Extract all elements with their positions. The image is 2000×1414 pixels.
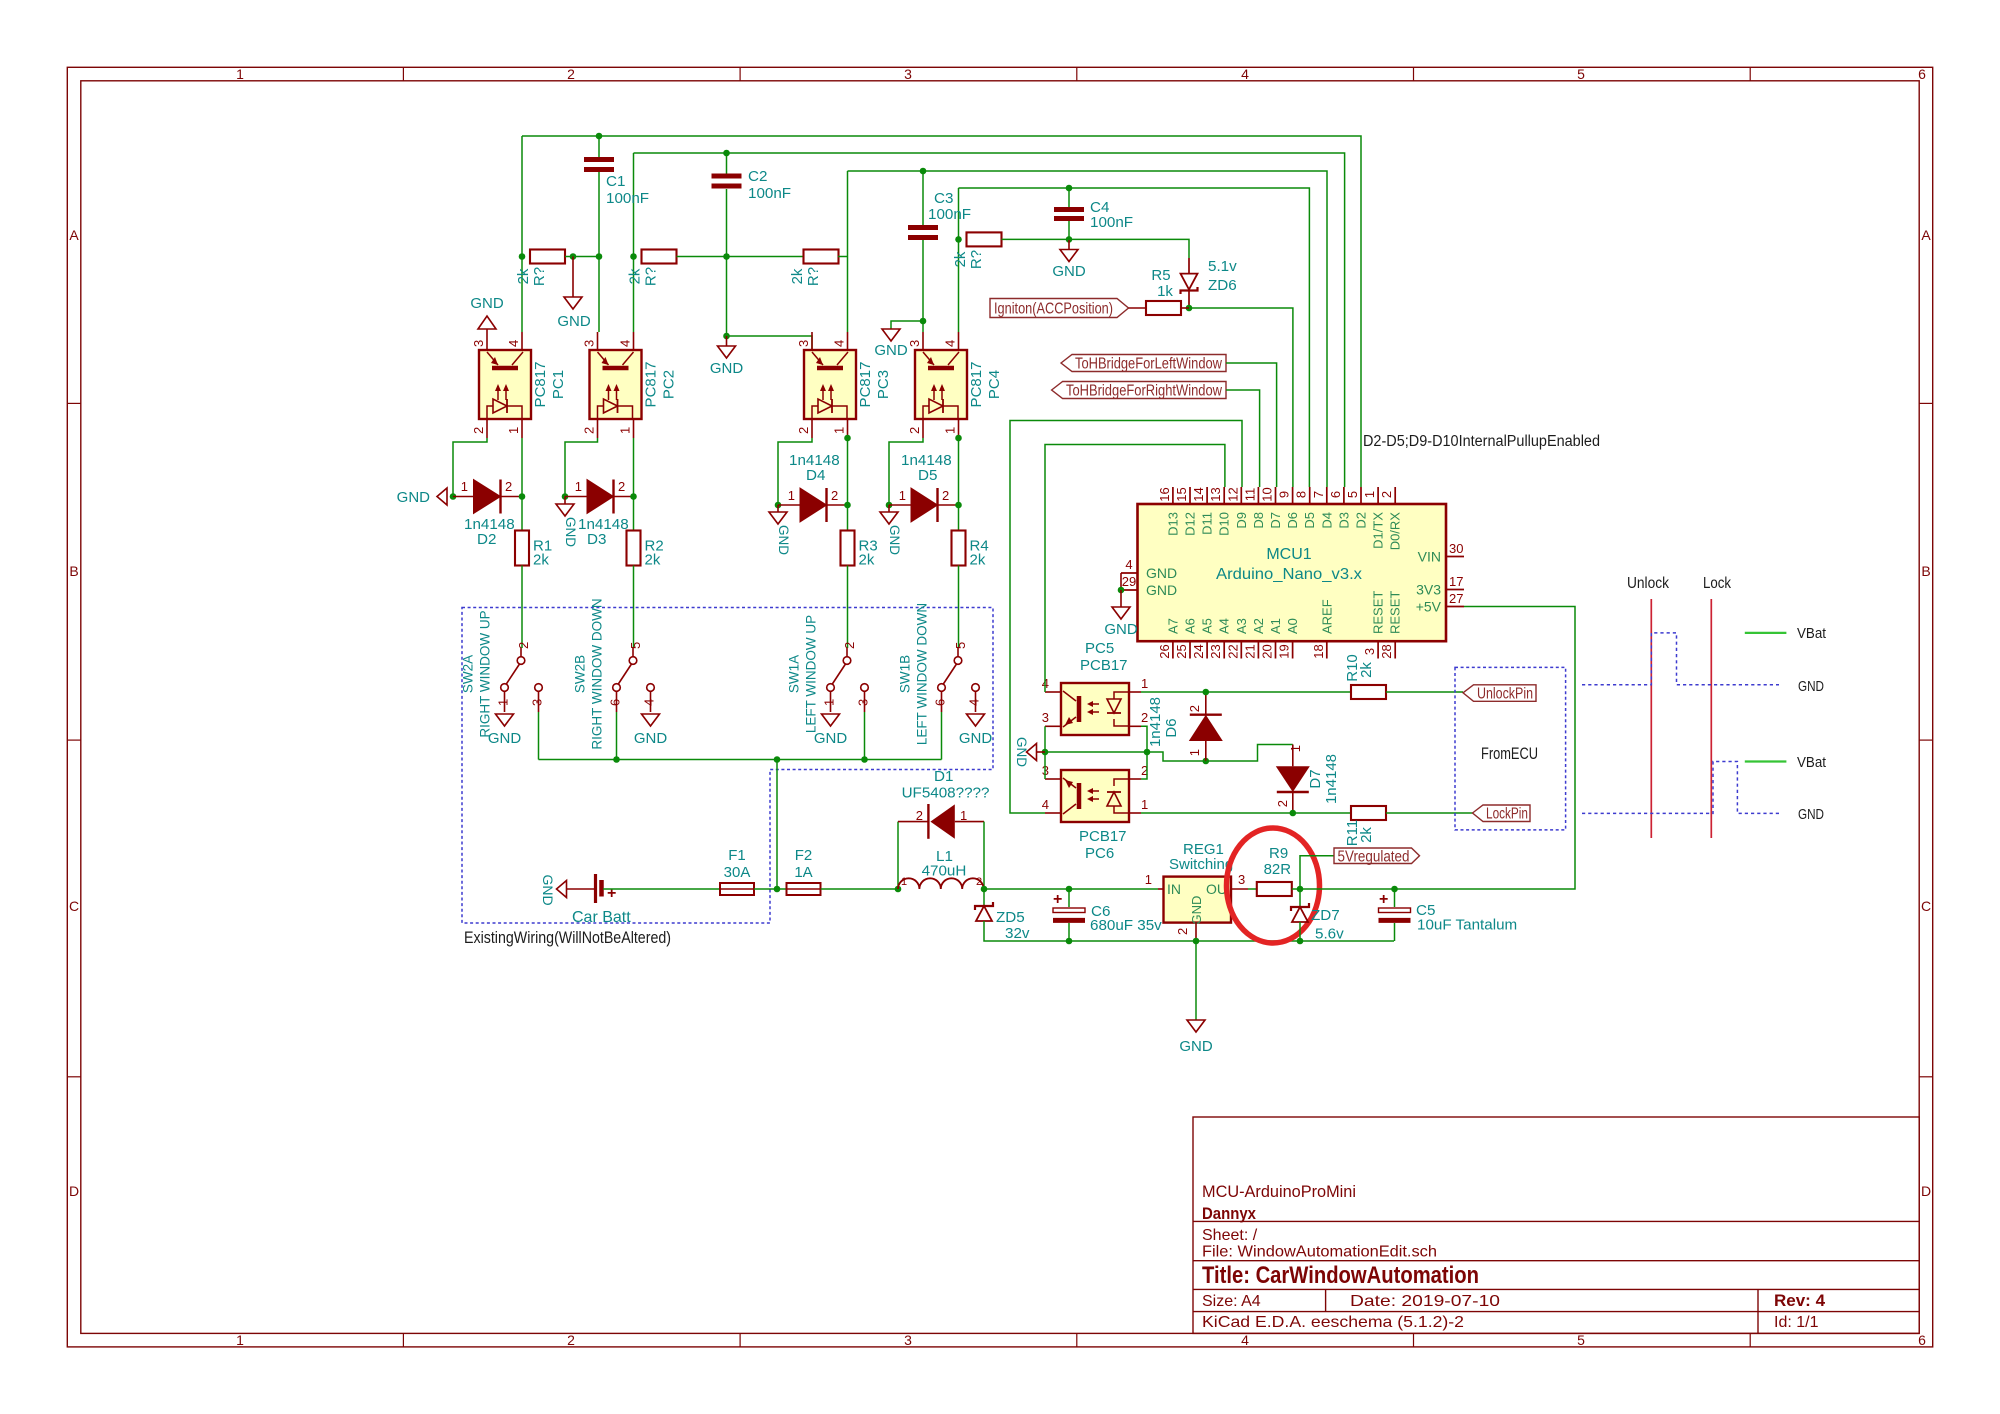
wire gnd stem R?1 <box>572 257 574 298</box>
junction D3 anode gnd <box>562 493 569 500</box>
svg-text:2k: 2k <box>1358 827 1375 843</box>
svg-text:GND: GND <box>959 730 993 747</box>
svg-text:IN: IN <box>1167 881 1181 897</box>
diode D3 1n4148 <box>587 480 614 514</box>
wire gnd stem D5 <box>888 505 890 512</box>
svg-text:PCB17: PCB17 <box>1079 828 1127 845</box>
wire PC6 pin1 to R11 <box>1141 812 1351 814</box>
pin 3 stub PC1 <box>486 332 488 350</box>
power gnd below D5 <box>880 512 898 524</box>
wire gnd node to pin2s <box>1045 751 1147 753</box>
svg-text:VBat: VBat <box>1797 625 1827 642</box>
svg-text:2k: 2k <box>952 251 969 267</box>
svg-text:100nF: 100nF <box>928 206 971 223</box>
wire D6 anode to D7 <box>1206 745 1293 762</box>
wire R11 to LockPin <box>1386 812 1473 814</box>
wire RightWindow to pin11 <box>1226 390 1260 487</box>
wire 5V riser to label <box>1300 856 1334 889</box>
svg-text:ToHBridgeForLeftWindow: ToHBridgeForLeftWindow <box>1075 356 1223 373</box>
svg-text:11: 11 <box>1242 488 1257 502</box>
svg-text:4: 4 <box>832 340 847 347</box>
capacitor C4 <box>1054 207 1084 212</box>
svg-text:GND: GND <box>710 360 744 377</box>
junction D4 cathode <box>844 502 851 509</box>
svg-text:MCU-ArduinoProMini: MCU-ArduinoProMini <box>1202 1182 1356 1201</box>
svg-text:15: 15 <box>1174 487 1189 501</box>
svg-text:R?: R? <box>968 250 985 269</box>
diode D6 cathode lead <box>1205 692 1207 715</box>
svg-text:5: 5 <box>628 642 643 649</box>
svg-text:2k: 2k <box>645 552 661 569</box>
pin 25 stub bottom <box>1189 641 1191 658</box>
svg-text:3: 3 <box>471 340 486 347</box>
junction R9 out node <box>1297 886 1304 893</box>
svg-text:PC817: PC817 <box>532 362 549 408</box>
wire R10 to UnlockPin <box>1386 691 1463 693</box>
wire ZD5 top <box>983 889 985 905</box>
svg-text:1: 1 <box>1145 872 1152 887</box>
svg-text:3: 3 <box>1362 648 1377 655</box>
svg-text:Size: A4: Size: A4 <box>1202 1293 1261 1310</box>
hierarchical label ToHBridgeForLeftWindow <box>1061 355 1226 372</box>
svg-text:1: 1 <box>1187 749 1202 756</box>
svg-text:1: 1 <box>901 876 907 888</box>
svg-text:1: 1 <box>575 479 582 494</box>
svg-text:GND: GND <box>1146 565 1177 581</box>
wire R9 node to C5 node <box>1300 888 1395 890</box>
svg-text:GND: GND <box>1179 1038 1213 1055</box>
svg-text:GND: GND <box>1189 896 1204 925</box>
junction D3 cathode <box>630 493 637 500</box>
svg-text:4: 4 <box>1042 797 1049 812</box>
junction R?1 gnd tap <box>570 253 577 260</box>
wire PC5 pin3 down <box>1044 726 1046 752</box>
diode D7 pin2 lead <box>1292 792 1294 813</box>
diode D4 cathode lead <box>827 504 848 506</box>
svg-text:1: 1 <box>1141 676 1148 691</box>
svg-text:GND: GND <box>488 730 522 747</box>
junction PC4 pin1 <box>955 435 962 442</box>
svg-text:2: 2 <box>582 427 597 434</box>
pin 4 stub PC2 <box>633 332 635 350</box>
svg-text:3: 3 <box>1238 872 1245 887</box>
svg-text:2: 2 <box>916 808 923 823</box>
svg-text:Id: 1/1: Id: 1/1 <box>1774 1314 1819 1331</box>
wire ZD7 bottom <box>1299 922 1301 941</box>
svg-text:C1: C1 <box>606 173 625 190</box>
svg-text:6: 6 <box>608 699 623 706</box>
svg-text:3: 3 <box>530 699 545 706</box>
hierarchical label UnlockPin <box>1463 685 1536 702</box>
pin 3 stub PC2 <box>597 332 599 350</box>
power gnd below C2 <box>726 336 728 346</box>
svg-text:2: 2 <box>505 479 512 494</box>
power gnd REG1 <box>1187 1020 1205 1032</box>
wire gnd node to D6 anode <box>1147 752 1206 761</box>
diode D3 cathode lead <box>614 496 634 498</box>
junction C4 top rail <box>1066 185 1073 192</box>
junction bus battery riser <box>774 756 781 763</box>
diode D5 cathode lead <box>938 504 959 506</box>
svg-text:20: 20 <box>1260 644 1275 658</box>
power gnd below C3 <box>882 329 900 341</box>
pin 4 stub PC5 <box>1045 691 1061 693</box>
pin 4 stub left <box>1121 572 1138 574</box>
wire mcu gnd stem <box>1120 590 1122 607</box>
svg-text:26: 26 <box>1157 644 1172 658</box>
svg-text:2: 2 <box>976 876 982 888</box>
svg-text:2: 2 <box>831 488 838 503</box>
pin 10 stub top <box>1275 487 1277 504</box>
wire gnd stem D3 <box>564 497 566 505</box>
svg-text:32v: 32v <box>1005 925 1030 942</box>
svg-text:680uF 35v: 680uF 35v <box>1090 917 1162 934</box>
wire C2 bottom <box>726 189 728 336</box>
junction R5 ZD6 node <box>1186 305 1193 312</box>
svg-text:12: 12 <box>1225 487 1240 501</box>
pin 17 stub right <box>1446 589 1464 591</box>
junction C3 gnd node <box>920 318 927 325</box>
wire R4 to SW1B <box>958 566 960 649</box>
junction C1 top rail <box>596 133 603 140</box>
svg-text:D4: D4 <box>1319 512 1334 529</box>
svg-text:5.1v: 5.1v <box>1208 258 1237 275</box>
svg-text:LEFT WINDOW DOWN: LEFT WINDOW DOWN <box>915 603 930 745</box>
svg-text:D8: D8 <box>1251 512 1266 529</box>
wire ZD5 bottom to rail <box>984 921 1394 941</box>
pin 23 stub bottom <box>1223 641 1225 658</box>
svg-text:ToHBridgeForRightWindow: ToHBridgeForRightWindow <box>1066 383 1223 400</box>
pin 3 stub PC6 <box>1045 778 1061 780</box>
zener ZD6 bottom lead <box>1188 291 1190 309</box>
junction PC56 pin2 node <box>1144 749 1151 756</box>
pin 4 stub PC3 <box>847 332 849 350</box>
svg-text:GND: GND <box>814 730 848 747</box>
svg-text:1: 1 <box>943 427 958 434</box>
mcu U1 Arduino Nano box <box>1138 504 1447 641</box>
power gnd PC5 <box>1027 744 1037 761</box>
wire PC3 pin2 to D4 <box>778 438 812 505</box>
svg-text:4: 4 <box>1241 66 1249 82</box>
svg-text:1: 1 <box>506 427 521 434</box>
svg-text:10: 10 <box>1260 487 1275 501</box>
pin 3 stub bottom <box>1377 641 1379 658</box>
switch SW2A <box>517 657 525 665</box>
svg-text:2: 2 <box>1379 491 1394 498</box>
junction Rpu2 left <box>630 253 637 260</box>
svg-text:D2-D5;D9-D10InternalPullupEnab: D2-D5;D9-D10InternalPullupEnabled <box>1363 433 1600 450</box>
svg-text:2: 2 <box>567 66 575 82</box>
wire R?3 right <box>838 256 848 258</box>
wire C3 gnd tap <box>891 321 923 329</box>
wire Igniton to R5 <box>1129 307 1147 309</box>
pin 9 stub top <box>1292 487 1294 504</box>
svg-text:2: 2 <box>567 1332 575 1348</box>
resistor R11 2k <box>1351 806 1386 820</box>
resistor R5 1k <box>1146 301 1181 315</box>
svg-text:PC4: PC4 <box>986 370 1003 399</box>
svg-text:D6: D6 <box>1285 512 1300 529</box>
wire rail PC1-D5 net <box>522 136 1361 487</box>
svg-text:A6: A6 <box>1183 618 1198 634</box>
svg-text:1: 1 <box>496 699 511 706</box>
svg-text:A0: A0 <box>1285 618 1300 634</box>
svg-text:Sheet: /: Sheet: / <box>1202 1227 1258 1244</box>
svg-text:PCB17: PCB17 <box>1080 657 1128 674</box>
svg-text:D10: D10 <box>1217 512 1232 536</box>
wire PC6 pin4 to MCU pin12 <box>1010 421 1242 814</box>
waveform VBat level lower <box>1745 760 1787 762</box>
svg-text:D: D <box>69 1183 79 1199</box>
junction ZD7 bottom <box>1297 938 1304 945</box>
svg-text:ZD7: ZD7 <box>1311 907 1340 924</box>
junction L1 left <box>895 886 902 893</box>
power gnd left of D2 <box>437 488 447 505</box>
svg-text:5.6v: 5.6v <box>1315 926 1344 943</box>
svg-text:2k: 2k <box>1358 662 1375 678</box>
wire PC5 pin4 to MCU pin13 <box>1045 445 1225 693</box>
svg-text:Switching: Switching <box>1169 856 1233 873</box>
svg-text:GND: GND <box>557 313 591 330</box>
wire C6 bottom <box>1068 923 1070 941</box>
wire PC6 pin2 up <box>1141 752 1147 779</box>
svg-text:100nF: 100nF <box>748 185 791 202</box>
fuse F1 30A <box>720 883 754 895</box>
svg-text:PC817: PC817 <box>643 362 660 408</box>
svg-text:C: C <box>1921 898 1931 914</box>
wire bus to battery node <box>776 760 778 890</box>
svg-text:C3: C3 <box>934 190 953 207</box>
pin 26 stub bottom <box>1172 641 1174 658</box>
global label 5Vregulated <box>1334 848 1420 864</box>
junction C3 top rail <box>920 168 927 175</box>
svg-text:D13: D13 <box>1165 512 1180 536</box>
wire F2 to L1 <box>821 888 898 890</box>
svg-text:GND: GND <box>1052 263 1086 280</box>
svg-text:6: 6 <box>1918 66 1926 82</box>
svg-text:30: 30 <box>1449 541 1463 556</box>
wire gnd lead PC5 <box>1037 751 1046 753</box>
svg-text:2: 2 <box>1175 928 1190 935</box>
svg-text:D4: D4 <box>806 467 825 484</box>
svg-text:1: 1 <box>1288 745 1303 752</box>
wire C3 bottom to PC4 pin3 <box>922 240 924 332</box>
svg-text:5: 5 <box>1345 491 1360 498</box>
capacitor C5 10uF <box>1379 908 1411 913</box>
wire C4 top <box>1068 188 1070 207</box>
waveform lock pulse <box>1582 762 1779 814</box>
svg-text:2: 2 <box>1187 705 1202 712</box>
svg-text:1: 1 <box>461 479 468 494</box>
svg-text:Igniton(ACCPosition): Igniton(ACCPosition) <box>994 301 1113 318</box>
svg-text:29: 29 <box>1122 574 1136 589</box>
svg-text:GND: GND <box>1146 582 1177 598</box>
svg-text:10uF Tantalum: 10uF Tantalum <box>1417 917 1517 934</box>
svg-text:7: 7 <box>1311 491 1326 498</box>
diode D2 cathode lead <box>501 496 523 498</box>
svg-text:13: 13 <box>1208 487 1223 501</box>
resistor R1 2k <box>515 531 529 566</box>
pin 14 stub top <box>1206 487 1208 504</box>
svg-text:GND: GND <box>397 489 431 506</box>
pin 1 stub PC4 <box>958 419 960 438</box>
waveform Unlock line <box>1650 599 1652 838</box>
junction C1-R net <box>596 253 603 260</box>
wire PC2 pin4 riser <box>633 153 635 332</box>
svg-text:+: + <box>1379 891 1388 908</box>
pin 1 stub PC2 <box>633 419 635 438</box>
pin 15 stub top <box>1189 487 1191 504</box>
svg-text:9: 9 <box>1277 491 1292 498</box>
svg-text:GND: GND <box>634 730 668 747</box>
resistor R10 2k <box>1351 685 1386 699</box>
svg-text:3: 3 <box>907 340 922 347</box>
svg-text:1n4148: 1n4148 <box>1147 697 1164 747</box>
svg-text:RESET: RESET <box>1371 591 1386 634</box>
pin 2 stub PC2 <box>597 419 599 438</box>
wire PC3 pin4 riser <box>847 171 849 332</box>
wire F1 to F2 <box>754 888 786 890</box>
pin 7 stub top <box>1326 487 1328 504</box>
svg-text:D7: D7 <box>1307 769 1324 788</box>
svg-text:AREF: AREF <box>1319 599 1334 634</box>
wire PC2 pin2 to D3 <box>565 438 598 497</box>
junction mcu gnd <box>1118 587 1125 594</box>
junction C2 top rail <box>723 150 730 157</box>
pin 5 stub top <box>1360 487 1362 504</box>
dashed box ExistingWiring <box>462 608 993 924</box>
hierarchical label ToHBridgeForRightWindow <box>1052 382 1226 399</box>
svg-text:18: 18 <box>1311 644 1326 658</box>
svg-text:82R: 82R <box>1264 861 1292 878</box>
diode D7 1n4148 <box>1276 766 1310 792</box>
pin 2 stub PC5 <box>1129 725 1141 727</box>
svg-text:+: + <box>1053 891 1062 908</box>
svg-text:R?: R? <box>531 267 548 286</box>
optocoupler PC6 PCB17 <box>1061 770 1129 822</box>
pin 2 stub PC1 <box>486 419 488 438</box>
svg-text:2k: 2k <box>627 268 644 284</box>
svg-text:RIGHT WINDOW DOWN: RIGHT WINDOW DOWN <box>590 598 605 749</box>
wire C5 bottom <box>1394 923 1396 941</box>
title block outline <box>1193 1117 1919 1333</box>
pin 2 stub top <box>1394 487 1396 504</box>
svg-text:A: A <box>1921 227 1931 243</box>
svg-text:4: 4 <box>1241 1332 1249 1348</box>
annotation red circle around R9 <box>1227 828 1320 943</box>
pin 11 stub top <box>1257 487 1259 504</box>
svg-text:A1: A1 <box>1268 618 1283 634</box>
wire rail PC2-D6 net <box>634 153 1345 487</box>
svg-text:A2: A2 <box>1251 618 1266 634</box>
svg-text:2k: 2k <box>859 552 875 569</box>
svg-text:ZD5: ZD5 <box>996 909 1025 926</box>
junction D6 cathode node <box>1203 689 1210 696</box>
svg-text:A5: A5 <box>1200 618 1215 634</box>
svg-text:C2: C2 <box>748 168 767 185</box>
pin 16 stub top <box>1172 487 1174 504</box>
svg-text:ZD6: ZD6 <box>1208 277 1237 294</box>
pin 8 stub top <box>1309 487 1311 504</box>
wire C2 top <box>726 153 728 174</box>
resistor R?4 2k <box>967 232 1002 246</box>
svg-text:KiCad E.D.A. eeschema (5.1.2): KiCad E.D.A. eeschema (5.1.2)-2 <box>1202 1314 1464 1331</box>
svg-text:GND: GND <box>874 342 908 359</box>
svg-text:1: 1 <box>960 808 967 823</box>
svg-text:R9: R9 <box>1269 845 1288 862</box>
svg-text:GND: GND <box>1104 621 1138 638</box>
wire R?2 right to R?3 left <box>677 256 805 258</box>
resistor R4 2k <box>952 531 966 566</box>
svg-text:1A: 1A <box>794 864 812 881</box>
wire PC5 pin1 to R10 <box>1141 691 1351 693</box>
svg-text:D3: D3 <box>1336 512 1351 529</box>
wire PC2 pin1 to R2 <box>633 438 635 531</box>
svg-text:3: 3 <box>582 340 597 347</box>
power gnd below R?1 <box>564 297 582 309</box>
svg-text:VBat: VBat <box>1797 754 1827 771</box>
svg-text:C: C <box>69 898 79 914</box>
svg-text:PC817: PC817 <box>968 362 985 408</box>
wire R5 to ZD6 node <box>1181 307 1189 309</box>
junction D5 cathode <box>955 502 962 509</box>
pin 29 stub left <box>1121 589 1138 591</box>
svg-text:Date: 2019-07-10: Date: 2019-07-10 <box>1350 1293 1500 1310</box>
zener ZD6 top lead <box>1188 258 1190 274</box>
wire C6 top <box>1068 889 1070 907</box>
resistor R2 2k <box>627 531 641 566</box>
junction PC3 pin1 <box>844 435 851 442</box>
svg-text:+: + <box>607 885 616 902</box>
svg-text:3: 3 <box>1042 710 1049 725</box>
frame zone ticks <box>402 67 404 81</box>
svg-text:1: 1 <box>899 488 906 503</box>
svg-text:1: 1 <box>236 1332 244 1348</box>
svg-text:PC1: PC1 <box>550 370 567 399</box>
svg-text:D6: D6 <box>1163 718 1180 737</box>
waveform unlock pulse <box>1582 633 1779 685</box>
switch SW1A <box>843 657 851 665</box>
svg-text:UnlockPin: UnlockPin <box>1477 685 1533 702</box>
wire battery gnd lead <box>567 888 595 890</box>
svg-text:8: 8 <box>1294 491 1309 498</box>
svg-text:2k: 2k <box>789 268 806 284</box>
pin 1 stub PC6 <box>1129 812 1141 814</box>
optocoupler PC4 PC817 <box>915 350 967 419</box>
svg-text:1: 1 <box>618 427 633 434</box>
wire C3 top <box>922 171 924 225</box>
svg-text:D7: D7 <box>1268 512 1283 529</box>
svg-text:D3: D3 <box>587 531 606 548</box>
junction bus SW1A <box>861 756 868 763</box>
svg-text:R?: R? <box>643 267 660 286</box>
svg-text:D5: D5 <box>1302 512 1317 529</box>
wire R2 to SW2B <box>633 566 635 649</box>
pin 2 stub PC3 <box>811 419 813 438</box>
junction Rpu1 left <box>519 253 526 260</box>
svg-text:Dannyx: Dannyx <box>1202 1204 1256 1223</box>
wire +5V pin27 loop <box>1395 607 1576 890</box>
wire C5 top <box>1394 889 1396 907</box>
power gnd battery <box>557 881 567 898</box>
svg-text:6: 6 <box>1918 1332 1926 1348</box>
svg-text:5: 5 <box>1577 66 1585 82</box>
wire D1 right riser <box>983 822 985 889</box>
wire SW1B pin6 down <box>941 712 943 760</box>
resistor R?1 2k <box>530 250 565 264</box>
wire PC1 pin4 riser <box>521 136 523 332</box>
svg-text:D2: D2 <box>477 531 496 548</box>
